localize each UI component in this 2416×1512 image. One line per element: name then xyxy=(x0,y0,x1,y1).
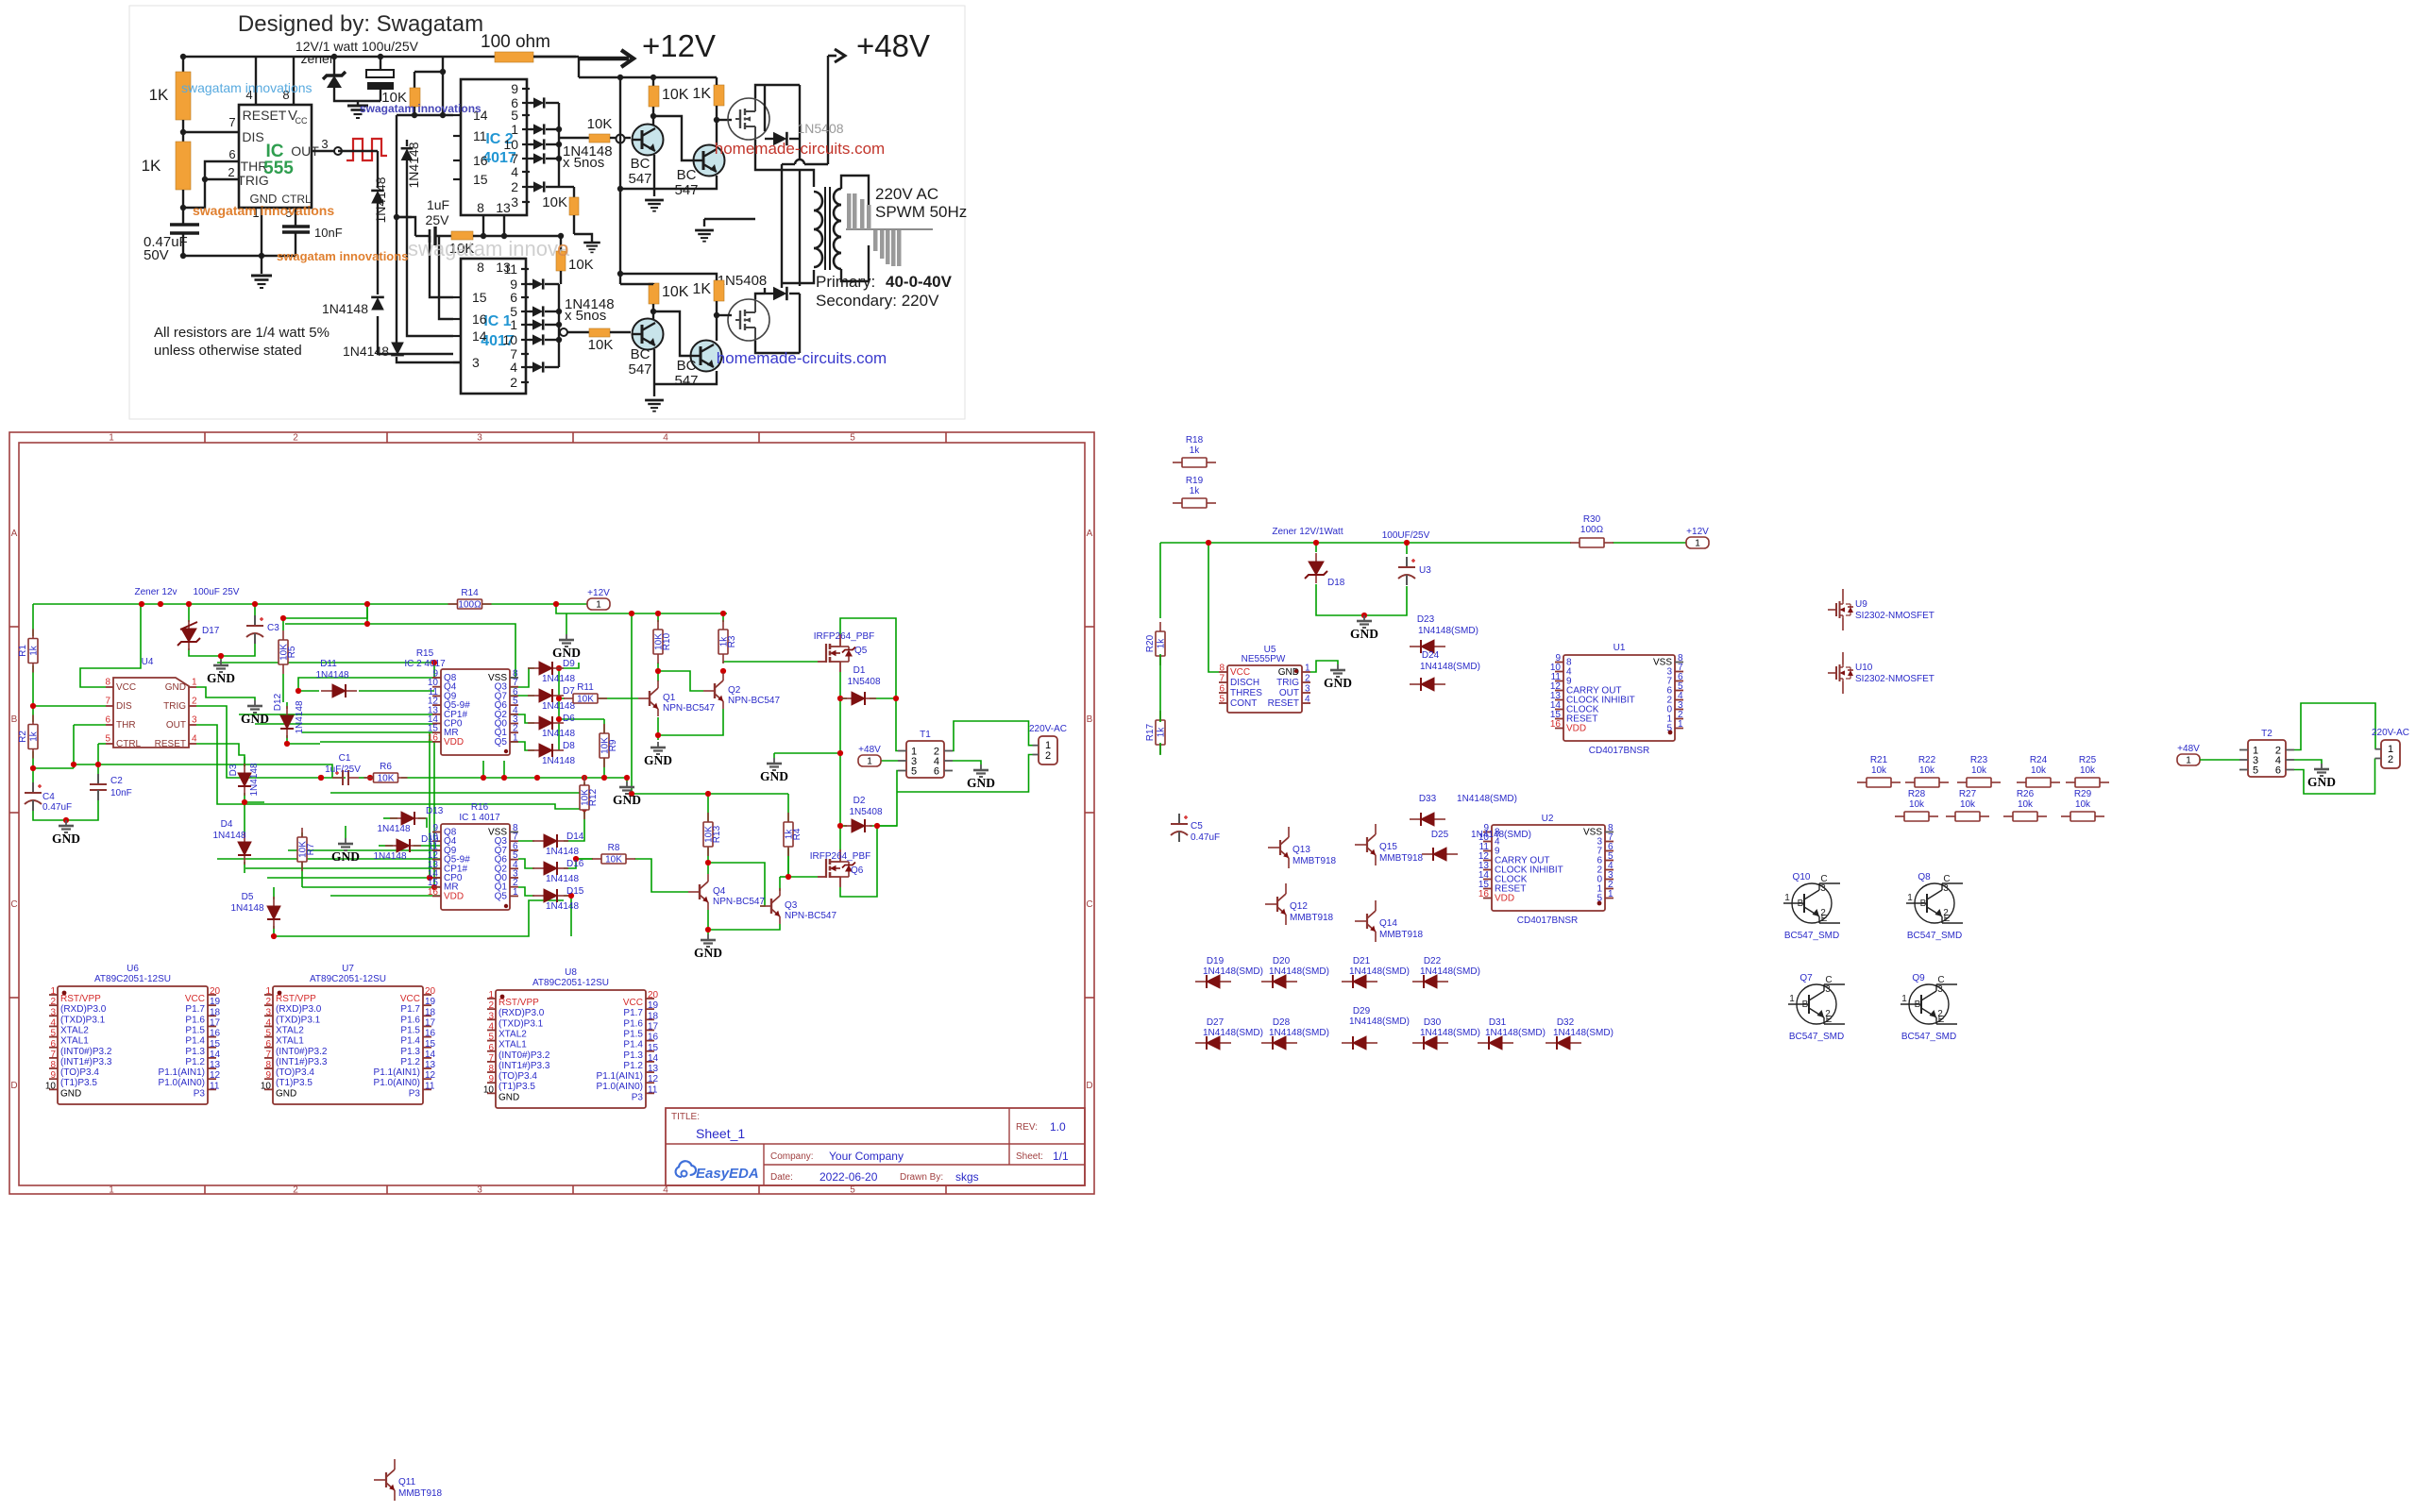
svg-text:1K: 1K xyxy=(692,281,711,297)
svg-text:547: 547 xyxy=(674,373,698,389)
svg-text:9: 9 xyxy=(265,1070,271,1081)
ground xyxy=(644,742,672,767)
wire junction xyxy=(501,775,507,781)
svg-text:(T1)P3.5: (T1)P3.5 xyxy=(498,1082,535,1092)
wire xyxy=(545,283,559,285)
svg-text:10k: 10k xyxy=(1871,765,1887,776)
ground xyxy=(2307,764,2336,789)
svg-text:R24: R24 xyxy=(2030,755,2048,765)
capacitor 0.47uF xyxy=(170,223,199,227)
svg-text:B: B xyxy=(1802,1000,1809,1010)
wire xyxy=(787,848,789,877)
transformer xyxy=(782,170,869,283)
resistor R18 xyxy=(1173,435,1216,467)
wire xyxy=(619,77,621,284)
svg-text:VCC: VCC xyxy=(623,998,643,1008)
wire xyxy=(1159,743,1161,755)
svg-text:D6: D6 xyxy=(563,714,575,724)
svg-text:R19: R19 xyxy=(1186,476,1204,486)
svg-text:1: 1 xyxy=(511,122,518,137)
wire xyxy=(217,662,434,664)
wire xyxy=(840,826,877,897)
svg-text:D11: D11 xyxy=(320,659,337,669)
IC U7 AT89C2051-12SU xyxy=(261,964,436,1104)
wire xyxy=(546,128,559,130)
wire xyxy=(654,371,717,384)
svg-text:Sheet:: Sheet: xyxy=(1016,1151,1043,1162)
svg-text:R12: R12 xyxy=(588,788,599,806)
svg-text:11: 11 xyxy=(473,128,487,143)
svg-text:14: 14 xyxy=(425,1050,436,1060)
wire xyxy=(870,697,896,699)
svg-text:1N4148(SMD): 1N4148(SMD) xyxy=(1203,966,1263,977)
wire xyxy=(652,283,654,284)
wire xyxy=(755,294,765,299)
svg-text:13: 13 xyxy=(648,1064,659,1074)
wire junction xyxy=(556,156,562,161)
svg-text:1k: 1k xyxy=(1190,486,1201,496)
svg-text:SI2302-NMOSFET: SI2302-NMOSFET xyxy=(1855,674,1934,684)
wire xyxy=(779,877,781,891)
svg-text:Drawn By:: Drawn By: xyxy=(900,1172,943,1183)
zener diode D18 xyxy=(1305,553,1327,583)
svg-text:SI2302-NMOSFET: SI2302-NMOSFET xyxy=(1855,611,1934,621)
ground xyxy=(331,838,360,864)
wire xyxy=(722,662,724,663)
wire xyxy=(73,725,75,768)
svg-text:OUT: OUT xyxy=(1279,688,1299,698)
svg-text:D14: D14 xyxy=(566,832,584,842)
wire xyxy=(33,767,74,769)
svg-text:D1: D1 xyxy=(853,665,866,676)
svg-text:BC547_SMD: BC547_SMD xyxy=(1901,1032,1956,1042)
wire xyxy=(545,366,559,368)
wire xyxy=(545,339,559,341)
svg-text:+48V: +48V xyxy=(2177,744,2200,754)
svg-text:1: 1 xyxy=(1907,893,1913,903)
diode D9 xyxy=(528,662,564,675)
IC xyxy=(1219,664,1310,714)
svg-text:8: 8 xyxy=(488,1064,494,1074)
wire xyxy=(378,316,453,354)
svg-text:x 5nos: x 5nos xyxy=(563,155,604,171)
resistor 100ohm xyxy=(495,52,533,62)
svg-text:3: 3 xyxy=(321,137,328,151)
svg-text:C1: C1 xyxy=(339,753,351,764)
wire xyxy=(312,150,336,152)
svg-text:10nF: 10nF xyxy=(314,226,343,240)
wire xyxy=(782,163,795,165)
wire junction xyxy=(202,176,208,182)
wire xyxy=(397,114,453,116)
wire xyxy=(564,896,571,936)
svg-text:D5: D5 xyxy=(242,892,254,902)
ground xyxy=(1350,615,1378,641)
svg-text:RESET: RESET xyxy=(155,739,186,749)
wire xyxy=(1406,543,1408,554)
wire xyxy=(620,283,653,285)
resistor 10K drive xyxy=(589,134,610,143)
wire xyxy=(274,900,564,936)
wire junction xyxy=(556,337,562,343)
svg-text:D12: D12 xyxy=(273,693,283,711)
wire xyxy=(799,170,801,286)
svg-text:Q5: Q5 xyxy=(495,891,508,901)
svg-text:IC 1: IC 1 xyxy=(483,313,511,329)
wire junction xyxy=(271,933,277,939)
svg-text:16: 16 xyxy=(472,311,487,327)
svg-text:T2: T2 xyxy=(2261,729,2272,739)
wire xyxy=(196,725,359,804)
wire xyxy=(1613,542,1686,544)
wire xyxy=(430,236,453,297)
svg-text:1: 1 xyxy=(596,600,601,611)
svg-text:Primary:: Primary: xyxy=(816,273,875,291)
wire xyxy=(245,867,441,869)
svg-text:R14: R14 xyxy=(461,588,479,598)
svg-text:1: 1 xyxy=(1678,719,1683,730)
wire xyxy=(288,849,441,851)
svg-text:6: 6 xyxy=(934,766,939,778)
svg-text:R6: R6 xyxy=(380,762,392,772)
svg-text:D25: D25 xyxy=(1431,830,1449,840)
wire xyxy=(896,698,898,751)
svg-text:220V AC: 220V AC xyxy=(875,185,938,203)
svg-text:7: 7 xyxy=(265,1050,271,1060)
svg-text:25V: 25V xyxy=(426,212,450,227)
wire xyxy=(620,274,717,280)
+48V arrow xyxy=(828,55,836,58)
ground xyxy=(760,758,788,783)
wire xyxy=(183,233,296,256)
wire xyxy=(897,755,1033,793)
svg-text:10K: 10K xyxy=(662,284,689,300)
svg-text:16: 16 xyxy=(1550,719,1562,730)
wire xyxy=(559,718,604,720)
svg-text:0.47uF: 0.47uF xyxy=(1191,832,1220,843)
wire junction xyxy=(180,205,186,210)
wire xyxy=(182,120,184,142)
wire xyxy=(717,314,732,316)
mosfet U9 xyxy=(1828,589,1934,630)
wire junction xyxy=(705,927,711,932)
svg-text:GND: GND xyxy=(1324,676,1352,690)
capacitor C2 xyxy=(90,774,107,800)
svg-text:Q5: Q5 xyxy=(854,646,868,656)
svg-text:Company:: Company: xyxy=(770,1151,814,1162)
svg-text:1: 1 xyxy=(488,990,494,1000)
sheet border frame xyxy=(9,432,1094,1196)
diode D16 xyxy=(532,862,568,875)
svg-text:1N4148: 1N4148 xyxy=(546,901,579,912)
diode xyxy=(533,181,544,192)
svg-text:NE555PW: NE555PW xyxy=(1242,654,1286,664)
wire junction xyxy=(501,233,507,239)
svg-text:(TO)P3.4: (TO)P3.4 xyxy=(276,1067,314,1078)
mosfet xyxy=(728,98,769,140)
svg-text:10: 10 xyxy=(261,1081,272,1091)
svg-text:15: 15 xyxy=(648,1043,659,1053)
svg-text:D27: D27 xyxy=(1207,1017,1225,1028)
wire xyxy=(755,85,765,98)
wire xyxy=(545,324,559,326)
ground xyxy=(613,781,641,807)
transformer T2 xyxy=(2239,729,2294,777)
svg-text:AT89C2051-12SU: AT89C2051-12SU xyxy=(94,974,171,984)
svg-text:REV:: REV: xyxy=(1016,1122,1038,1133)
wire junction xyxy=(180,54,186,59)
svg-text:1N4148(SMD): 1N4148(SMD) xyxy=(1269,1028,1329,1038)
svg-text:U8: U8 xyxy=(565,967,577,978)
wire junction xyxy=(705,791,711,797)
wire xyxy=(530,143,534,145)
wire junction xyxy=(655,611,661,616)
wire junction xyxy=(431,884,437,890)
svg-text:1: 1 xyxy=(1608,889,1613,899)
resistor R17 xyxy=(1145,711,1167,754)
wire xyxy=(840,825,847,827)
svg-text:IC 1 4017: IC 1 4017 xyxy=(459,813,500,823)
svg-text:6: 6 xyxy=(105,715,110,726)
svg-text:10K: 10K xyxy=(378,774,395,784)
wire xyxy=(2200,759,2239,761)
svg-text:5: 5 xyxy=(2253,765,2258,777)
resistor 1K xyxy=(714,280,724,301)
SPWM waveform xyxy=(846,193,933,266)
resistor R29 xyxy=(2061,789,2104,821)
transistor Q10 xyxy=(1783,872,1840,941)
wire xyxy=(396,115,397,181)
svg-text:(INT0#)P3.2: (INT0#)P3.2 xyxy=(276,1047,328,1057)
svg-text:2: 2 xyxy=(1820,908,1826,918)
wire xyxy=(657,663,659,681)
svg-text:CC: CC xyxy=(296,116,308,126)
svg-text:MMBT918: MMBT918 xyxy=(398,1488,443,1499)
transistor Q8 xyxy=(1906,872,1963,941)
wire xyxy=(707,930,709,934)
svg-text:NPN-BC547: NPN-BC547 xyxy=(785,911,836,921)
wire xyxy=(840,697,847,699)
svg-text:1N4148(SMD): 1N4148(SMD) xyxy=(1203,1028,1263,1038)
diode D6 xyxy=(528,716,564,730)
wire junction xyxy=(242,799,247,805)
wire xyxy=(293,57,295,105)
svg-text:2: 2 xyxy=(228,165,234,179)
wire xyxy=(559,697,565,699)
wire xyxy=(435,235,451,237)
transistor BC547 xyxy=(632,125,664,156)
capacitor C1 xyxy=(332,770,359,785)
diode D29 xyxy=(1342,1036,1377,1050)
wire junction xyxy=(650,75,656,80)
svg-text:220V-AC: 220V-AC xyxy=(2372,728,2409,738)
svg-text:11: 11 xyxy=(210,1081,220,1091)
svg-text:3: 3 xyxy=(472,355,480,370)
title block xyxy=(666,1108,1085,1185)
svg-text:7: 7 xyxy=(488,1053,494,1064)
wire xyxy=(841,176,869,229)
wire xyxy=(182,190,184,225)
svg-text:B: B xyxy=(1920,899,1927,909)
svg-text:4: 4 xyxy=(663,1185,668,1196)
diode D31 xyxy=(1478,1036,1513,1050)
svg-text:R2: R2 xyxy=(18,731,28,743)
wire xyxy=(510,695,534,697)
svg-text:RST/VPP: RST/VPP xyxy=(60,994,101,1004)
svg-text:1N4148: 1N4148 xyxy=(322,301,368,316)
svg-text:GND: GND xyxy=(552,646,581,660)
svg-text:D2: D2 xyxy=(853,796,866,806)
svg-text:7: 7 xyxy=(228,115,235,129)
svg-text:P1.1(AIN1): P1.1(AIN1) xyxy=(159,1067,205,1078)
wire xyxy=(302,886,441,888)
svg-text:VCC: VCC xyxy=(185,994,205,1004)
svg-text:GND: GND xyxy=(694,946,722,960)
wire xyxy=(560,236,562,251)
svg-text:8: 8 xyxy=(477,260,484,275)
svg-text:P1.6: P1.6 xyxy=(185,1015,205,1025)
wire xyxy=(546,143,559,145)
svg-text:homemade-circuits.com: homemade-circuits.com xyxy=(717,349,887,367)
svg-text:+48V: +48V xyxy=(858,745,881,755)
wire xyxy=(839,826,841,849)
svg-text:10k: 10k xyxy=(2075,799,2091,810)
svg-text:P3: P3 xyxy=(194,1088,206,1099)
wire xyxy=(708,924,780,930)
svg-text:4: 4 xyxy=(192,734,197,745)
diode D2 xyxy=(844,819,872,832)
wire junction xyxy=(556,126,562,132)
wire xyxy=(556,604,727,613)
wire xyxy=(74,724,106,726)
svg-text:2: 2 xyxy=(50,997,56,1007)
wire xyxy=(430,732,441,878)
svg-text:R22: R22 xyxy=(1918,755,1936,765)
svg-text:R25: R25 xyxy=(2079,755,2097,765)
wire xyxy=(396,181,397,344)
wire xyxy=(379,845,393,847)
svg-text:0.47uF: 0.47uF xyxy=(42,802,72,813)
svg-text:18: 18 xyxy=(425,1007,436,1017)
svg-text:9: 9 xyxy=(488,1074,494,1084)
wire junction xyxy=(582,806,587,812)
capacitor 10nF xyxy=(282,225,310,227)
wire xyxy=(603,719,605,734)
svg-text:P1.0(AIN0): P1.0(AIN0) xyxy=(374,1078,420,1088)
svg-text:GND: GND xyxy=(52,832,80,846)
transistor BC547 xyxy=(632,319,664,350)
mosfet Q5 xyxy=(818,634,855,672)
wire xyxy=(482,603,587,605)
svg-text:8: 8 xyxy=(265,1060,271,1070)
svg-text:R11: R11 xyxy=(577,682,594,693)
wire xyxy=(273,887,275,899)
svg-text:10K: 10K xyxy=(577,695,594,705)
svg-text:1: 1 xyxy=(50,986,56,997)
svg-text:P1.5: P1.5 xyxy=(623,1029,643,1039)
svg-text:D23: D23 xyxy=(1417,614,1435,625)
wire xyxy=(787,794,789,821)
svg-text:(TO)P3.4: (TO)P3.4 xyxy=(498,1071,537,1082)
svg-text:All resistors are 1/4 watt 5%: All resistors are 1/4 watt 5% xyxy=(154,325,329,341)
wire junction xyxy=(650,309,656,314)
svg-text:GND: GND xyxy=(760,769,788,783)
svg-text:+48V: +48V xyxy=(856,28,930,63)
diode D12 xyxy=(280,706,294,738)
svg-text:CD4017BNSR: CD4017BNSR xyxy=(1517,916,1578,926)
svg-text:IRFP264_PBF: IRFP264_PBF xyxy=(814,631,874,642)
diode xyxy=(532,306,543,316)
svg-text:D33: D33 xyxy=(1419,794,1437,804)
wire junction xyxy=(364,621,370,627)
svg-text:swagatam innova: swagatam innova xyxy=(408,237,570,260)
svg-text:14: 14 xyxy=(472,328,487,344)
svg-text:20: 20 xyxy=(425,986,436,997)
transistor BC547 xyxy=(693,145,725,176)
svg-text:D29: D29 xyxy=(1353,1006,1371,1016)
svg-text:B: B xyxy=(11,714,18,725)
svg-text:100UF/25V: 100UF/25V xyxy=(1382,530,1430,541)
wire xyxy=(583,782,585,786)
svg-text:R8: R8 xyxy=(608,843,620,853)
wire xyxy=(546,158,559,160)
svg-text:1N4148: 1N4148 xyxy=(542,729,575,739)
svg-text:1k: 1k xyxy=(29,731,40,742)
+12V arrow xyxy=(533,56,576,58)
wire xyxy=(333,57,335,76)
wire xyxy=(530,158,534,160)
diode xyxy=(532,319,543,329)
svg-text:2: 2 xyxy=(1825,1009,1831,1019)
svg-text:(INT0#)P3.2: (INT0#)P3.2 xyxy=(498,1050,550,1061)
svg-text:Q1: Q1 xyxy=(663,693,676,703)
diode xyxy=(371,191,384,204)
svg-text:B: B xyxy=(1915,1000,1921,1010)
svg-text:MMBT918: MMBT918 xyxy=(1292,856,1337,866)
net flag +48V xyxy=(858,745,881,767)
svg-text:2: 2 xyxy=(1943,908,1949,918)
wire xyxy=(298,678,434,691)
wire xyxy=(626,778,628,781)
svg-text:5: 5 xyxy=(1219,695,1225,705)
svg-text:3: 3 xyxy=(50,1007,56,1017)
svg-text:R26: R26 xyxy=(2017,789,2035,799)
wire junction xyxy=(617,186,623,192)
svg-text:D20: D20 xyxy=(1273,956,1291,966)
resistor 10K xyxy=(451,231,473,240)
svg-text:R3: R3 xyxy=(727,635,737,647)
svg-text:2: 2 xyxy=(2388,754,2393,765)
svg-text:R20: R20 xyxy=(1145,634,1156,652)
svg-text:(TXD)P3.1: (TXD)P3.1 xyxy=(276,1015,321,1025)
wire xyxy=(286,702,288,709)
svg-text:16: 16 xyxy=(425,1029,436,1039)
svg-text:SPWM 50Hz: SPWM 50Hz xyxy=(875,203,967,221)
svg-text:1: 1 xyxy=(265,986,271,997)
svg-text:P1.6: P1.6 xyxy=(623,1018,643,1029)
resistor 1K lower xyxy=(176,142,191,190)
svg-text:P1.4: P1.4 xyxy=(623,1040,643,1050)
svg-text:1k: 1k xyxy=(1190,445,1201,456)
wire xyxy=(2294,759,2375,795)
svg-text:3: 3 xyxy=(1943,883,1949,894)
wire xyxy=(518,840,534,842)
wire junction xyxy=(534,775,540,781)
svg-text:D10: D10 xyxy=(421,834,439,845)
svg-text:1N4148: 1N4148 xyxy=(373,176,388,223)
wire xyxy=(32,751,34,782)
wire junction xyxy=(284,741,290,747)
